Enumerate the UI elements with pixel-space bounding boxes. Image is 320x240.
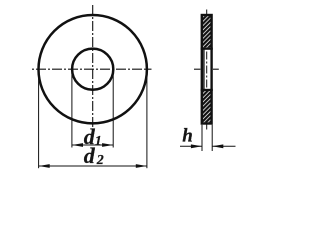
svg-text:2: 2 bbox=[96, 153, 104, 168]
hole bore inner edge line bbox=[203, 49, 205, 90]
label d1 bbox=[84, 124, 96, 149]
horizontal centerline right dash bbox=[213, 68, 219, 70]
dimension line d1 bbox=[72, 144, 113, 146]
vertical centerline of section bbox=[206, 10, 208, 132]
hole top edge line bbox=[201, 48, 213, 50]
arrowhead d1 right bbox=[102, 143, 113, 147]
extension line d1 left bbox=[71, 69, 73, 147]
horizontal centerline left dash bbox=[194, 68, 200, 70]
arrowhead h right (points left) bbox=[212, 144, 223, 148]
dimension line h right part bbox=[212, 145, 235, 147]
svg-text:1: 1 bbox=[95, 134, 102, 149]
svg-text:h: h bbox=[182, 126, 193, 147]
label h bbox=[182, 126, 193, 147]
hole bottom edge line bbox=[201, 89, 213, 91]
dimension line d2 bbox=[39, 165, 147, 167]
extension line h left bbox=[201, 125, 203, 151]
arrowhead d2 right bbox=[136, 164, 147, 168]
section hatching top band bbox=[203, 16, 211, 47]
vertical centerline bbox=[92, 5, 94, 127]
section outline rect bbox=[202, 15, 212, 124]
extension line d2 left bbox=[38, 69, 40, 168]
washer outer circle bbox=[38, 15, 146, 123]
horizontal centerline bbox=[32, 68, 152, 70]
arrowhead d2 left bbox=[39, 164, 50, 168]
section hatching bottom band bbox=[203, 91, 211, 122]
extension line d1 right bbox=[112, 69, 114, 147]
washer inner circle (hole) bbox=[72, 49, 113, 90]
arrowhead h left (points right) bbox=[191, 144, 202, 148]
svg-text:d: d bbox=[84, 143, 96, 168]
arrowhead d1 left bbox=[72, 143, 83, 147]
extension line d2 right bbox=[146, 69, 148, 168]
label d2 bbox=[84, 143, 96, 168]
dimension line h left part bbox=[180, 145, 202, 147]
extension line h right bbox=[211, 125, 213, 151]
